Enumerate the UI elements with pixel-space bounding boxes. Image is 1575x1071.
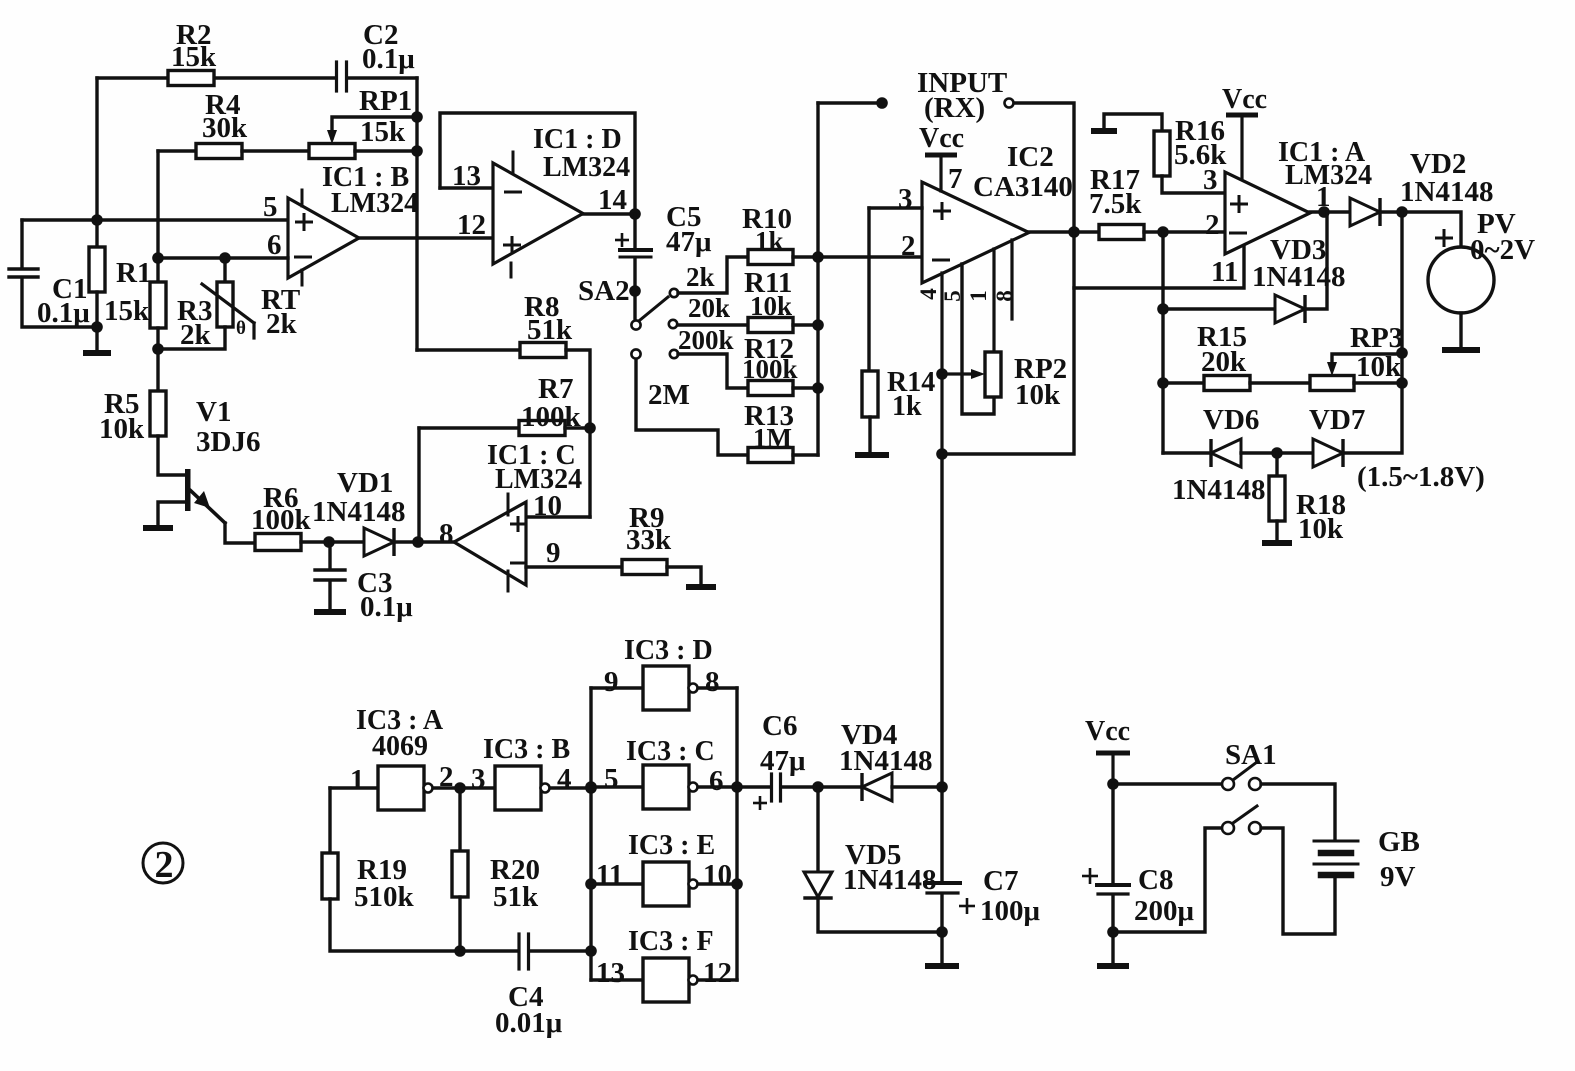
wire R7 right — [565, 426, 590, 429]
resistor R4 — [196, 144, 242, 159]
svg-text:IC1 : D: IC1 : D — [533, 124, 622, 155]
node RP2 wiper — [936, 368, 948, 380]
resistor R11 — [748, 318, 793, 333]
battery GB 9V — [1314, 840, 1358, 843]
svg-text:0.1μ: 0.1μ — [362, 43, 415, 75]
resistor R5 — [150, 391, 166, 436]
VD5 cathode bar — [805, 896, 831, 899]
svg-text:47μ: 47μ — [760, 745, 806, 777]
IC2 pin1 lead — [992, 249, 995, 352]
inverter IC3:B — [495, 766, 541, 810]
node VD4/C7 — [936, 781, 948, 793]
resistor R16 — [1154, 131, 1170, 176]
wire VD5 return — [818, 898, 942, 932]
IC2 Vcc lead — [939, 157, 942, 191]
wire R16 top to ground — [1104, 114, 1162, 131]
diode VD3 1N4148 — [1275, 295, 1305, 323]
svg-text:IC3 : E: IC3 : E — [628, 830, 715, 861]
wire pin9 to R9 — [526, 565, 622, 568]
svg-text:0.1μ: 0.1μ — [360, 591, 413, 623]
node C8 bottom — [1107, 926, 1119, 938]
svg-text:2: 2 — [901, 230, 916, 262]
svg-text:30k: 30k — [202, 112, 248, 144]
node output — [1318, 206, 1330, 218]
svg-text:VD7: VD7 — [1309, 404, 1365, 436]
wire C4 to bus — [529, 949, 591, 952]
wire IC1:B output to IC1:D pin12 — [359, 236, 493, 239]
svg-text:47μ: 47μ — [666, 226, 712, 258]
wire pin6 row — [158, 256, 288, 259]
wire to C4 — [460, 949, 518, 952]
node pin10 — [731, 878, 743, 890]
SA2 arm — [640, 297, 668, 320]
svg-text:10k: 10k — [1356, 351, 1402, 383]
svg-text:IC3 : B: IC3 : B — [483, 734, 570, 765]
RP1 wiper arrow — [327, 130, 337, 144]
svg-text:1: 1 — [966, 290, 991, 302]
wire RP1 right — [355, 149, 417, 152]
svg-text:2M: 2M — [648, 379, 690, 411]
ground below C7 — [925, 963, 959, 969]
diode VD1 1N4148 — [364, 528, 394, 556]
resistor R13 — [748, 448, 793, 463]
wire R7 to pin8 node — [417, 428, 420, 542]
RP2 wiper arrow — [942, 372, 978, 375]
ground below R9 — [686, 584, 716, 590]
svg-text:IC3 : D: IC3 : D — [624, 635, 713, 666]
resistor R1 — [89, 247, 105, 292]
wire VD3 anode — [1163, 307, 1275, 310]
svg-text:7.5k: 7.5k — [1089, 188, 1142, 220]
wire R8 to pin10 loop — [566, 350, 590, 517]
svg-text:1k: 1k — [755, 226, 784, 256]
IC2 pin4 lead — [940, 273, 943, 454]
svg-text:Vcc: Vcc — [1222, 84, 1267, 115]
wire R15 to RP3 — [1250, 381, 1310, 384]
svg-text:8: 8 — [439, 518, 454, 550]
Vcc lead — [1111, 755, 1114, 784]
diode VD4 1N4148 — [862, 773, 892, 801]
wire RT bottom — [158, 327, 225, 349]
diode VD6 1N4148 — [1211, 439, 1241, 467]
node C3 top — [323, 536, 335, 548]
figure number 2 — [143, 843, 183, 883]
wire C7 to ground — [940, 895, 943, 964]
svg-text:15k: 15k — [171, 41, 217, 73]
node R7/R8 — [584, 422, 596, 434]
wire R13 right — [793, 453, 818, 456]
svg-text:4: 4 — [916, 288, 941, 300]
wire IC3:D out — [698, 686, 737, 689]
wire IC3:E out — [698, 882, 737, 885]
Vcc bar IC1:A — [1226, 113, 1258, 118]
wire R6 to VD1 — [301, 540, 364, 543]
svg-text:51k: 51k — [527, 314, 573, 346]
transistor V1 3DJ6 — [185, 469, 191, 511]
inverter IC3:F — [643, 958, 689, 1002]
resistor R2 — [168, 71, 214, 86]
svg-text:RP1: RP1 — [359, 85, 412, 117]
wire R4 to RP1 — [242, 149, 309, 152]
wire pin6 output — [1029, 230, 1099, 233]
inverter bubble — [689, 880, 698, 889]
wire pin11 — [1074, 245, 1244, 288]
node C7/VD5 — [936, 926, 948, 938]
wire output rail down to VD7 — [1344, 212, 1402, 453]
svg-text:CA3140: CA3140 — [973, 171, 1073, 203]
svg-text:2: 2 — [1205, 209, 1220, 241]
svg-text:4: 4 — [557, 763, 572, 795]
svg-text:9: 9 — [546, 537, 561, 569]
node pin6/RX — [1068, 226, 1080, 238]
potentiometer RP2 — [985, 352, 1001, 397]
svg-text:8: 8 — [705, 666, 720, 698]
diode VD2 1N4148 — [1350, 198, 1380, 226]
V1 source lead with arrow — [190, 490, 225, 523]
svg-text:200k: 200k — [678, 325, 734, 355]
svg-text:V1: V1 — [196, 396, 231, 428]
ground at V1 gate — [143, 525, 173, 531]
wire pin3 to R14 — [867, 208, 870, 371]
IC2 pin8 stub — [1010, 240, 1013, 319]
svg-text:3: 3 — [1203, 164, 1218, 196]
node RP3 right — [1396, 377, 1408, 389]
svg-text:7: 7 — [948, 163, 963, 195]
IC1:C top power tick — [507, 494, 510, 515]
svg-text:12: 12 — [703, 957, 732, 989]
capacitor C5 — [620, 248, 651, 252]
svg-text:9V: 9V — [1380, 861, 1416, 893]
inverter bubble — [689, 684, 698, 693]
svg-text:20k: 20k — [688, 293, 730, 323]
wire to VD6 — [1163, 451, 1211, 454]
wire pin5 gate C — [591, 785, 643, 788]
wire 200k to R12 — [678, 354, 748, 388]
svg-text:LM324: LM324 — [543, 152, 630, 183]
contact — [1222, 778, 1234, 790]
wire 2k to R10 — [678, 257, 748, 293]
svg-text:Vcc: Vcc — [919, 123, 964, 154]
wire R12 right — [793, 386, 818, 389]
potentiometer RP1 body — [309, 144, 355, 159]
wire IC3:F out — [698, 978, 737, 981]
svg-text:IC3 : F: IC3 : F — [628, 926, 714, 957]
SA2 pole 2 contact — [631, 349, 640, 358]
resistor R17 — [1099, 225, 1144, 240]
wire left rail — [95, 78, 98, 247]
op-amp IC2 CA3140 — [922, 182, 1029, 283]
node R15 left — [1157, 377, 1169, 389]
svg-text:11: 11 — [1211, 256, 1238, 288]
wire pin1 output — [1310, 210, 1350, 213]
svg-text:2: 2 — [155, 844, 174, 886]
svg-text:1N4148: 1N4148 — [839, 745, 932, 777]
wire C6 to VD4 — [781, 785, 862, 788]
resistor R7 — [519, 421, 565, 436]
wire VD3 cathode up — [1306, 212, 1327, 309]
svg-text:R1: R1 — [116, 257, 151, 289]
svg-text:6: 6 — [709, 765, 724, 797]
wire R15 left — [1163, 381, 1204, 384]
node pin11 — [585, 878, 597, 890]
wire IC1:D feedback loop — [440, 113, 635, 214]
svg-text:IC2: IC2 — [1007, 141, 1054, 173]
svg-text:(1.5~1.8V): (1.5~1.8V) — [1357, 461, 1485, 493]
wire rail to C7 — [940, 787, 943, 881]
svg-text:11: 11 — [596, 859, 623, 891]
svg-text:10: 10 — [703, 859, 732, 891]
node VD2 cathode — [1396, 206, 1408, 218]
wire pin13 — [440, 186, 493, 189]
node R20 bottom — [454, 945, 466, 957]
RT diagonal — [202, 284, 254, 323]
wire pin5 row — [22, 218, 288, 221]
node SA2 — [629, 285, 641, 297]
contact — [1249, 778, 1261, 790]
wire pin6 loop down — [942, 232, 1074, 454]
wire RP3 wiper — [1332, 354, 1402, 362]
wire RP3 right — [1354, 381, 1402, 384]
capacitor C6 — [770, 774, 773, 801]
inverter bubble — [424, 784, 433, 793]
wire V1 to R6 — [225, 523, 255, 543]
inverter IC3:E — [643, 862, 689, 906]
node C8 top — [1107, 778, 1119, 790]
svg-text:10k: 10k — [750, 291, 792, 321]
node RP3 wiper — [1396, 347, 1408, 359]
wire R10 to IC2 pin2 — [793, 255, 922, 258]
node VD3 anode — [1157, 303, 1169, 315]
SA1 arm 1 — [1233, 762, 1257, 780]
svg-text:3: 3 — [898, 183, 913, 215]
svg-text:5: 5 — [604, 763, 619, 795]
wire pin3 — [869, 206, 922, 209]
wire R9 to ground — [667, 567, 701, 585]
resistor R9 — [622, 560, 667, 575]
node pin4 corner — [936, 448, 948, 460]
node RT top — [219, 252, 231, 264]
SA2 pole contact — [631, 320, 640, 329]
wire to ground — [95, 327, 98, 351]
svg-text:5: 5 — [940, 290, 965, 302]
wire VD6 to VD7 — [1241, 451, 1313, 454]
wire input bus vertical — [816, 103, 819, 455]
svg-text:12: 12 — [457, 209, 486, 241]
node R1 top — [91, 214, 103, 226]
inverter IC3:D — [643, 666, 689, 710]
wire rail to R8 — [417, 348, 520, 351]
svg-text:LM324: LM324 — [331, 188, 418, 219]
resistor R12 — [748, 381, 793, 396]
wire to SA1 lower pole — [1113, 828, 1222, 932]
svg-text:10k: 10k — [99, 413, 145, 445]
wire to C5 — [633, 214, 636, 248]
svg-text:13: 13 — [452, 160, 481, 192]
svg-text:VD1: VD1 — [337, 467, 393, 499]
wire SA1 to battery + — [1261, 784, 1335, 839]
wire RT top lead — [223, 258, 226, 282]
wire IC3:A out — [433, 786, 495, 789]
node pin4/5 — [585, 782, 597, 794]
node pin8/feedback — [412, 536, 424, 548]
IC2 pin5 lead to RP2 — [962, 264, 994, 414]
svg-text:20k: 20k — [1201, 346, 1247, 378]
ground R16 — [1091, 128, 1117, 134]
wire R3 to R5 — [156, 328, 159, 391]
wire rail R4 to R3 — [156, 151, 159, 282]
svg-text:10k: 10k — [1015, 379, 1061, 411]
wire R11 right — [793, 323, 818, 326]
wire PV to ground — [1459, 313, 1462, 348]
svg-text:C7: C7 — [983, 865, 1018, 897]
wire IC3:C out — [698, 785, 737, 788]
ground below PV — [1442, 347, 1480, 353]
svg-text:RP3: RP3 — [1350, 322, 1403, 354]
svg-text:SA2: SA2 — [578, 275, 630, 307]
wire pin9 — [591, 686, 643, 689]
svg-text:0~2V: 0~2V — [1470, 234, 1535, 266]
wire pin13 gate F — [591, 978, 643, 981]
wire VD4 to rail — [892, 785, 942, 788]
wire R4 left — [158, 149, 196, 152]
INPUT RX terminal — [1005, 99, 1014, 108]
svg-text:0.01μ: 0.01μ — [495, 1007, 563, 1039]
IC1:A Vcc lead — [1240, 117, 1243, 184]
svg-text:9: 9 — [604, 666, 619, 698]
wire Vcc to SA1 — [1113, 782, 1222, 785]
wire C1 bottom lead — [22, 278, 97, 327]
wire left bus — [589, 688, 592, 980]
wire R19 top — [328, 788, 331, 853]
wire C8 to ground — [1111, 896, 1114, 963]
wire input stub — [818, 101, 882, 104]
ground below R18 — [1262, 540, 1292, 546]
ground below R14 — [855, 452, 889, 458]
potentiometer RP3 — [1310, 376, 1354, 391]
IC1:B top power tick — [301, 190, 304, 206]
node C1/R1 — [91, 321, 103, 333]
wire R7 left — [419, 426, 519, 429]
svg-text:1: 1 — [350, 764, 365, 796]
resistor R6 — [255, 534, 301, 551]
svg-text:0.1μ: 0.1μ — [37, 297, 90, 329]
svg-text:33k: 33k — [626, 524, 672, 556]
wire R18 bottom — [1275, 521, 1278, 541]
wire IC3:B out — [550, 786, 591, 789]
resistor R3 — [150, 282, 166, 328]
svg-text:1N4148: 1N4148 — [1400, 176, 1493, 208]
node R18 top — [1271, 447, 1283, 459]
wire RP1 wiper — [332, 117, 417, 138]
svg-text:1N4148: 1N4148 — [1252, 261, 1345, 293]
node R11 bus — [812, 319, 824, 331]
svg-text:1M: 1M — [753, 423, 792, 453]
svg-text:C8: C8 — [1138, 864, 1173, 896]
op-amp IC1:B LM324 — [288, 198, 359, 278]
wire R5 to V1 drain — [158, 436, 184, 475]
svg-text:1k: 1k — [892, 391, 922, 422]
ground below R1 — [83, 350, 111, 356]
wire R18 top — [1275, 453, 1278, 476]
wire C2 to corner — [348, 76, 417, 79]
svg-text:C6: C6 — [762, 710, 797, 742]
wire C3 bottom lead — [328, 581, 331, 610]
Vcc bar IC2 — [925, 153, 957, 158]
wire down to VD4 node — [940, 454, 943, 786]
svg-text:510k: 510k — [354, 881, 415, 913]
svg-text:6: 6 — [267, 229, 282, 261]
wire RX to pin6 — [1014, 103, 1074, 232]
node R12 bus — [812, 382, 824, 394]
node pin14 — [629, 208, 641, 220]
svg-text:IC3 : C: IC3 : C — [626, 736, 715, 767]
wire C2/RP1 rail — [415, 78, 418, 350]
contact — [1249, 822, 1261, 834]
svg-text:10: 10 — [533, 490, 562, 522]
op-amp IC1:D LM324 — [493, 163, 583, 264]
contact — [1222, 822, 1234, 834]
meter PV — [1428, 247, 1494, 313]
svg-text:13: 13 — [596, 957, 625, 989]
SA1 arm 2 — [1233, 806, 1257, 823]
node RP1 right — [411, 145, 423, 157]
wire V1 gate lead — [158, 502, 186, 526]
wire 20k to R11 — [678, 323, 748, 326]
wire C5 to SA2 pole — [633, 258, 636, 318]
node pin6 — [152, 252, 164, 264]
svg-text:8: 8 — [992, 290, 1017, 302]
inverter IC3:C — [643, 765, 689, 809]
wire pin2 node down — [1161, 232, 1164, 453]
wire pin11 gate E — [591, 882, 643, 885]
svg-text:1N4148: 1N4148 — [312, 496, 405, 528]
SA2 throw 200k — [670, 350, 678, 358]
ground below C3 — [314, 609, 346, 615]
svg-text:14: 14 — [598, 184, 627, 216]
svg-text:2k: 2k — [266, 308, 298, 340]
IC1:C bottom power tick — [507, 571, 510, 591]
wire C1 top lead — [20, 220, 23, 266]
IC1:D top power tick — [512, 152, 515, 172]
resistor R8 — [520, 343, 566, 358]
svg-text:(RX): (RX) — [924, 92, 985, 124]
wire C3 top lead — [328, 542, 331, 568]
Vcc bar battery — [1096, 751, 1130, 756]
RT diagonal tail — [252, 323, 255, 338]
resistor R15 — [1204, 376, 1250, 391]
wire pin14 output — [583, 212, 635, 215]
inverter bubble — [689, 783, 698, 792]
wire SA1 to battery - — [1261, 828, 1335, 934]
svg-text:100k: 100k — [251, 504, 312, 536]
wire pin10 — [526, 515, 590, 518]
node input — [876, 97, 888, 109]
node R10 bus — [812, 251, 824, 263]
wire to C8 — [1111, 784, 1114, 883]
wire VD2 to PV — [1381, 212, 1461, 247]
svg-text:GB: GB — [1378, 826, 1420, 858]
capacitor C1 — [9, 267, 38, 270]
svg-text:100μ: 100μ — [980, 895, 1041, 927]
svg-text:θ: θ — [236, 318, 246, 339]
node R17 right — [1157, 226, 1169, 238]
svg-text:2k: 2k — [686, 262, 715, 292]
inverter bubble — [541, 784, 550, 793]
wire VD1 to IC1:C pin8 — [394, 540, 454, 543]
op-amp IC1:C LM324 — [454, 502, 526, 585]
capacitor C4 — [517, 934, 520, 969]
IC1:B bottom power tick — [301, 270, 304, 285]
